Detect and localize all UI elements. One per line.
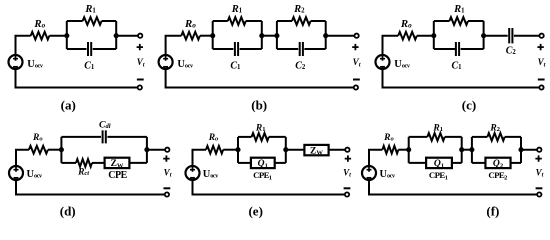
- wire block1 top branch right (f): [445, 136, 462, 138]
- svg-text:(a): (a): [61, 97, 76, 112]
- voltage source U_ocv (e): [186, 166, 200, 180]
- terminal + (b): [354, 34, 358, 38]
- wire bottom branch right (a): [93, 48, 117, 50]
- wire R_o to node (b): [200, 35, 213, 37]
- terminal + (f): [537, 148, 541, 152]
- wire block1 top branch left (f): [409, 136, 428, 138]
- wire R_o to node (f): [398, 149, 408, 151]
- resistor R_o (a): [31, 32, 50, 40]
- wire R_o to node (c): [417, 35, 434, 37]
- wire R_o to node (a): [49, 35, 67, 37]
- node right block1 (b): [259, 33, 264, 38]
- wire block2 top branch left (b): [277, 20, 292, 22]
- wire node to C2 (c): [484, 35, 508, 37]
- wire bottom branch left (a): [67, 48, 87, 50]
- minus sign (b): [353, 79, 360, 81]
- wire source top to R_o (f): [369, 150, 382, 167]
- wire block left vertical (d): [60, 137, 62, 163]
- node left block2 (f): [469, 147, 474, 152]
- svg-text:CPE: CPE: [108, 170, 127, 181]
- terminal - (f): [537, 192, 541, 196]
- node left (d): [59, 147, 64, 152]
- wire bottom rail (c): [383, 69, 540, 88]
- wire Q2 to block2 right (f): [511, 162, 521, 164]
- wire bottom branch right (c): [461, 48, 484, 50]
- wire top branch left (a): [67, 20, 83, 22]
- wire top branch right (e): [269, 136, 286, 138]
- node right block2 (f): [518, 147, 523, 152]
- voltage source U_ocv (c): [376, 55, 390, 69]
- node left block2 (b): [274, 33, 279, 38]
- wire block2 left vertical (f): [471, 137, 473, 163]
- plus sign (e): [345, 155, 351, 161]
- wire block1 right vertical (f): [461, 137, 463, 163]
- wire block1 left vertical (b): [212, 21, 214, 49]
- wire Z_W to block right (d): [129, 162, 147, 164]
- node right (c): [481, 33, 486, 38]
- wire top branch left (e): [238, 136, 252, 138]
- wire block right vertical (d): [146, 137, 148, 163]
- wire block1 bottom branch left (f): [409, 162, 426, 164]
- wire bottom rail (b): [166, 69, 354, 88]
- wire block2 right vertical (b): [325, 21, 327, 49]
- wire node to terminal (d): [147, 149, 165, 151]
- svg-text:(e): (e): [248, 203, 262, 218]
- svg-text:(b): (b): [251, 97, 267, 112]
- plus sign (b): [352, 44, 358, 50]
- CPE element Q2 (f): [485, 158, 510, 170]
- wire block2 bottom branch left (b): [277, 48, 298, 50]
- wire top branch left (d): [61, 136, 101, 138]
- wire between blocks (b): [262, 35, 277, 37]
- capacitor C2 (c): [509, 28, 512, 43]
- wire block left vertical (a): [66, 21, 68, 49]
- wire block1 bottom branch left (b): [213, 48, 234, 50]
- wire bottom rail (e): [193, 180, 346, 195]
- node left (a): [64, 33, 69, 38]
- wire block2 right vertical (f): [520, 137, 522, 163]
- minus sign (f): [536, 187, 543, 189]
- wire top branch right (d): [107, 136, 146, 138]
- resistor R1 (a): [83, 17, 102, 25]
- plus sign (d): [163, 155, 169, 161]
- capacitor C2 (b): [300, 42, 303, 56]
- plus sign (a): [137, 44, 143, 50]
- resistor R1 (f): [427, 133, 444, 141]
- CPE element Q1 (e): [251, 158, 275, 170]
- resistor R_o (b): [181, 32, 200, 40]
- wire bottom rail (f): [369, 180, 537, 195]
- wire block1 left vertical (f): [408, 137, 410, 163]
- wire block2 top branch right (f): [505, 136, 521, 138]
- wire source top to R_o (d): [16, 150, 29, 167]
- resistor R_ct (d): [76, 159, 92, 167]
- wire block1 bottom branch right (b): [240, 48, 262, 50]
- wire Q1 to block right (e): [275, 162, 286, 164]
- resistor R2 (b): [292, 17, 311, 25]
- minus sign (c): [538, 79, 545, 81]
- wire node to terminal (b): [326, 35, 355, 37]
- wire block2 top branch right (b): [311, 20, 326, 22]
- resistor R2 (f): [487, 133, 504, 141]
- wire source top to R_o (e): [193, 150, 207, 167]
- wire bottom rail (d): [16, 180, 165, 195]
- terminal - (d): [165, 192, 169, 196]
- resistor R_o (f): [382, 146, 398, 154]
- terminal - (b): [354, 85, 358, 89]
- wire R_ct to Z_W box (d): [92, 162, 105, 164]
- resistor R1 (e): [252, 133, 269, 141]
- wire source top to R_o (b): [166, 36, 182, 56]
- capacitor C1 (a): [88, 42, 91, 56]
- node right (a): [114, 33, 119, 38]
- wire bottom branch left (e): [238, 162, 251, 164]
- wire top branch right (c): [468, 20, 484, 22]
- terminal + (c): [539, 34, 543, 38]
- wire block1 top branch left (b): [213, 20, 228, 22]
- resistor R1 (b): [228, 17, 246, 25]
- Warburg impedance Z_W (e): [304, 145, 328, 157]
- resistor R_o (e): [206, 146, 223, 154]
- node right (e): [283, 147, 288, 152]
- resistor R_o (c): [398, 32, 417, 40]
- wire bottom branch left (d): [61, 162, 76, 164]
- wire block1 right vertical (b): [261, 21, 263, 49]
- capacitor C1 (c): [456, 42, 459, 56]
- capacitor C1 (b): [235, 42, 238, 56]
- resistor R1 (c): [449, 17, 468, 25]
- wire block left vertical (c): [433, 21, 435, 49]
- terminal - (a): [138, 85, 142, 89]
- wire block2 bottom branch right (b): [304, 48, 325, 50]
- wire block right vertical (a): [115, 21, 117, 49]
- wire block2 bottom branch left (f): [472, 162, 486, 164]
- terminal - (e): [345, 192, 349, 196]
- node right (d): [144, 147, 149, 152]
- node left block1 (b): [210, 33, 215, 38]
- svg-text:(d): (d): [60, 203, 76, 218]
- wire top branch left (c): [434, 20, 450, 22]
- terminal + (d): [165, 148, 169, 152]
- wire source top to R_o (a): [16, 36, 31, 55]
- wire R_o to node (e): [223, 149, 238, 151]
- wire block2 top branch left (f): [472, 136, 488, 138]
- node right block1 (f): [459, 147, 464, 152]
- voltage source U_ocv (b): [159, 55, 173, 69]
- voltage source U_ocv (f): [362, 166, 376, 180]
- wire Z_W to terminal (e): [329, 149, 346, 151]
- voltage source U_ocv (d): [9, 166, 23, 180]
- capacitor C_dl (d): [103, 130, 106, 143]
- wire Q1 to block1 right (f): [452, 162, 462, 164]
- wire source top to R_o (c): [383, 36, 399, 56]
- minus sign (e): [344, 187, 351, 189]
- wire node to Z_W (e): [286, 149, 305, 151]
- wire node to terminal (a): [116, 35, 138, 37]
- wire block right vertical (e): [285, 137, 287, 163]
- svg-text:(f): (f): [486, 203, 499, 218]
- wire block left vertical (e): [237, 137, 239, 163]
- wire between blocks (f): [462, 149, 472, 151]
- wire node to terminal (f): [521, 149, 537, 151]
- wire block right vertical (c): [483, 21, 485, 49]
- node left block1 (f): [406, 147, 411, 152]
- terminal + (e): [345, 148, 349, 152]
- terminal + (a): [138, 34, 142, 38]
- wire C2 to terminal (c): [514, 35, 540, 37]
- terminal - (c): [539, 85, 543, 89]
- CPE element Q1 (f): [426, 158, 452, 170]
- resistor R_o (d): [29, 146, 48, 154]
- wire block1 top branch right (b): [246, 20, 262, 22]
- wire bottom rail (a): [16, 69, 138, 88]
- Warburg impedance Z_W (d): [105, 158, 130, 170]
- node right block2 (b): [323, 33, 328, 38]
- wire bottom branch left (c): [434, 48, 456, 50]
- wire block2 left vertical (b): [276, 21, 278, 49]
- plus sign (f): [535, 155, 541, 161]
- plus sign (c): [537, 44, 543, 50]
- minus sign (a): [137, 79, 144, 81]
- node left (e): [235, 147, 240, 152]
- wire R_o to node (d): [48, 149, 62, 151]
- wire top branch right (a): [102, 20, 117, 22]
- svg-text:(c): (c): [462, 97, 476, 112]
- voltage source U_ocv (a): [9, 55, 23, 69]
- node left (c): [431, 33, 436, 38]
- minus sign (d): [164, 187, 171, 189]
